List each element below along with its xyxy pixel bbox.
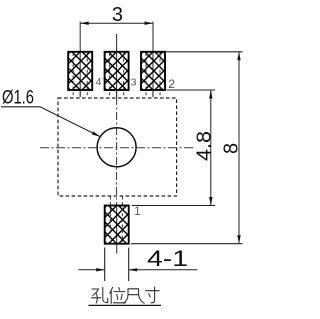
- svg-text:2: 2: [168, 77, 175, 91]
- title text 孔位尺寸 (hole position dimensions): [92, 287, 160, 303]
- pad 4 (top row): [68, 52, 92, 97]
- centerline pad 2: [152, 22, 154, 91]
- pad 3 (top row): [105, 52, 129, 97]
- centerline pad 3 / hole / pad 1 (vertical): [116, 34, 118, 90]
- centerline pad 4: [79, 22, 81, 91]
- pad 1 (bottom): [105, 197, 129, 244]
- component body (hidden outline): [58, 98, 177, 196]
- dimension 3 (pad pitch, top): [80, 4, 153, 26]
- horizontal centerline: [40, 147, 195, 149]
- dimension 8: [131, 52, 243, 244]
- label Ø1.6 with leader: [1, 88, 100, 137]
- svg-text:4: 4: [96, 76, 102, 88]
- svg-text:4-1: 4-1: [147, 246, 188, 271]
- dimension 4-1 (bottom pad width): [78, 246, 197, 281]
- pad 2 (top row): [141, 52, 165, 97]
- title underline: [89, 304, 162, 306]
- svg-text:1: 1: [134, 206, 140, 218]
- hole Ø1.6: [97, 128, 136, 167]
- svg-text:4.8: 4.8: [193, 131, 215, 161]
- svg-text:3: 3: [131, 76, 137, 88]
- svg-text:8: 8: [221, 143, 243, 154]
- dimension 4.8: [132, 90, 215, 206]
- svg-text:Ø1.6: Ø1.6: [2, 88, 34, 109]
